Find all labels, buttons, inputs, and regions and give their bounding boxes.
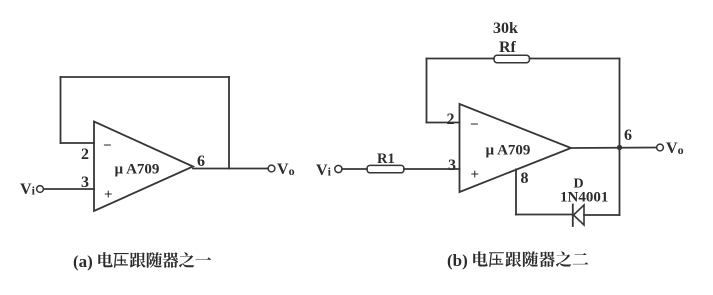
wire: diode to right vertical (b) — [584, 214, 620, 216]
terminal Vi (b) — [335, 165, 342, 172]
wire: bottom left to diode (b) — [516, 214, 573, 216]
terminal Vo (a) — [268, 165, 275, 172]
svg-text:3: 3 — [448, 157, 456, 174]
wire: feedback top right (b) — [530, 58, 620, 60]
svg-text:6: 6 — [624, 127, 632, 144]
op-amp U1 (circuit a) — [94, 122, 193, 212]
resistor R1 body — [367, 165, 404, 172]
wire: output (a) pin 6 — [193, 168, 268, 170]
svg-text:+: + — [471, 167, 480, 183]
svg-text:+: + — [104, 187, 113, 203]
wire: R1 to pin 3 (b) — [404, 168, 460, 170]
svg-text:−: − — [470, 117, 479, 133]
svg-text:8: 8 — [521, 170, 529, 187]
wire: feedback left vertical (a) — [60, 77, 62, 143]
svg-text:2: 2 — [447, 111, 455, 128]
wire: pin2 horizontal (b) — [427, 122, 460, 124]
wire: feedback right vertical (b) — [619, 59, 621, 148]
diode D 1N4001 cathode bar — [572, 205, 574, 227]
op-amp U2 (circuit b) — [460, 104, 572, 192]
svg-text:Vo: Vo — [277, 161, 295, 178]
caption (b) CJK: 电压跟随器之二 — [473, 251, 588, 267]
svg-text:(b): (b) — [447, 251, 468, 270]
svg-text:30k: 30k — [493, 20, 518, 37]
wire: output (b) pin 6 — [571, 147, 657, 150]
wire: feedback pin2 horizontal (a) — [61, 142, 95, 144]
svg-text:6: 6 — [197, 153, 205, 170]
svg-text:2: 2 — [81, 146, 89, 163]
wire: Vi to R1 (b) — [342, 168, 367, 170]
svg-text:Vo: Vo — [666, 140, 684, 157]
wire: input Vi to pin 3 (a) — [44, 188, 95, 190]
resistor Rf body — [494, 55, 530, 62]
caption (a) CJK: 电压跟随器之一 — [98, 252, 211, 268]
wire: feedback right vertical (a) — [228, 77, 230, 169]
node: output junction (b) — [617, 145, 622, 150]
svg-text:3: 3 — [81, 174, 89, 191]
wire: feedback left vertical (b) — [426, 59, 428, 123]
wire: right vertical down to diode loop (b) — [619, 148, 621, 216]
svg-text:Vi: Vi — [20, 181, 36, 198]
terminal Vo (b) — [657, 144, 664, 151]
diode D 1N4001 triangle — [574, 205, 585, 225]
wire: pin 8 vertical (b) — [515, 169, 517, 214]
svg-text:(a): (a) — [73, 252, 93, 271]
svg-text:1N4001: 1N4001 — [560, 190, 608, 206]
svg-text:Rf: Rf — [499, 39, 517, 56]
svg-text:µ A709: µ A709 — [115, 162, 160, 178]
svg-text:−: − — [103, 138, 112, 154]
svg-text:µ A709: µ A709 — [486, 143, 531, 159]
terminal Vi (a) — [37, 186, 44, 193]
svg-text:Vi: Vi — [316, 162, 332, 179]
wire: feedback top left (b) — [427, 58, 495, 60]
svg-text:R1: R1 — [377, 151, 395, 167]
wire: feedback top (a) — [61, 76, 230, 78]
